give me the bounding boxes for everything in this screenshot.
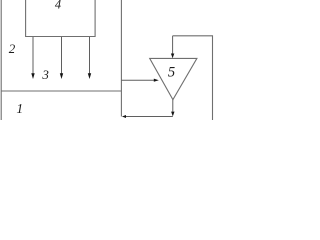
- wire: arrow shaft c (from box 4): [89, 37, 91, 74]
- svg-text:2: 2: [9, 41, 16, 56]
- box 4 (top cropped rectangle): [26, 0, 96, 37]
- svg-text:5: 5: [168, 64, 175, 80]
- arrowhead a (down): [31, 73, 34, 79]
- wire: top-right horizontal and right bus vertical: [173, 36, 213, 120]
- wire: triangle apex output (down): [172, 100, 174, 112]
- wire: top-right feed (down, then it came left from right bus): [172, 36, 174, 54]
- svg-text:1: 1: [16, 101, 23, 116]
- svg-text:4: 4: [55, 0, 61, 12]
- arrowhead onto bottom bus (down): [171, 112, 174, 117]
- wire: arrow shaft b (from box 4): [61, 37, 63, 74]
- wire: bottom bus horizontal: [126, 116, 173, 118]
- arrowhead into vertical bus (left): [122, 115, 126, 118]
- triangle 5 (inverted funnel): [150, 58, 197, 99]
- wire: vertical bus x=121.4: [120, 0, 122, 117]
- wire: branch into triangle 5 (horizontal): [121, 79, 154, 81]
- arrowhead into triangle top (down): [171, 54, 174, 59]
- arrowhead into triangle 5 (right): [154, 79, 159, 82]
- arrowhead c (down): [88, 73, 91, 79]
- wire: horizontal divider y=91 (top of region 1): [1, 90, 121, 92]
- arrowhead b (down): [60, 73, 63, 79]
- svg-text:3: 3: [41, 67, 49, 82]
- wire: arrow shaft a (from box 4): [32, 37, 34, 74]
- wire: left border vertical (box 2 left edge): [0, 0, 2, 120]
